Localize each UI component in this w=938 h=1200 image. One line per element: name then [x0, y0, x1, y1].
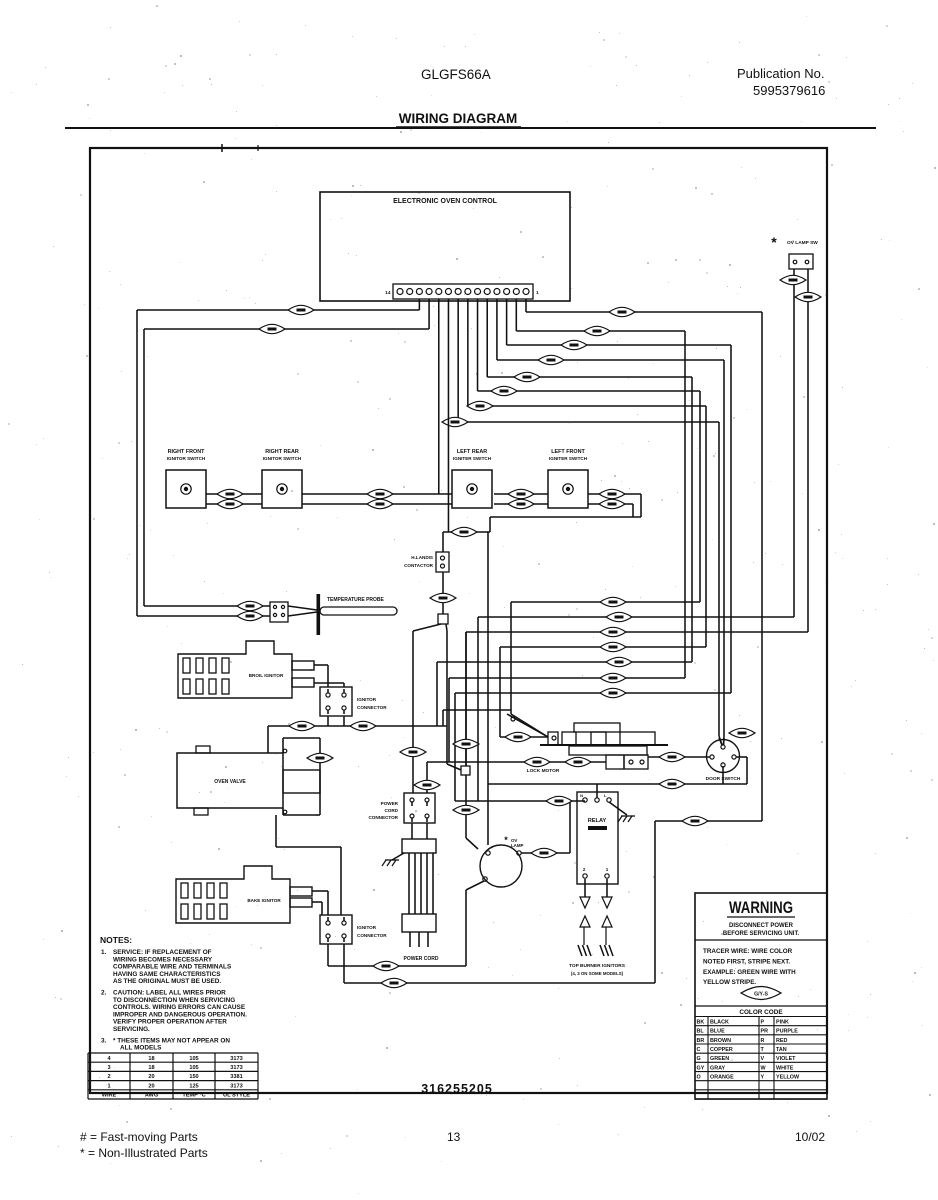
svg-text:BEFORE SERVICING UNIT.: BEFORE SERVICING UNIT.: [723, 931, 800, 937]
svg-text:AS THE ORIGINAL MUST BE USED.: AS THE ORIGINAL MUST BE USED.: [113, 978, 221, 985]
svg-text:COPPER: COPPER: [710, 1047, 733, 1053]
svg-text:POWER: POWER: [381, 801, 399, 806]
svg-text:SERVICE: IF REPLACEMENT OF: SERVICE: IF REPLACEMENT OF: [113, 949, 212, 956]
svg-text:P: P: [761, 1020, 765, 1026]
svg-text:3.: 3.: [101, 1037, 107, 1044]
svg-text:1: 1: [107, 1083, 110, 1089]
svg-text:C: C: [697, 1047, 701, 1053]
svg-text:ORANGE: ORANGE: [710, 1075, 734, 1081]
svg-text:LEFT REAR: LEFT REAR: [457, 449, 487, 455]
svg-text:RED: RED: [776, 1038, 787, 1044]
svg-text:BROIL IGNITOR: BROIL IGNITOR: [249, 673, 284, 678]
svg-text:OVEN VALVE: OVEN VALVE: [214, 779, 246, 785]
svg-text:BAKE IGNITOR: BAKE IGNITOR: [247, 898, 281, 903]
svg-text:R: R: [761, 1038, 765, 1044]
svg-text:20: 20: [148, 1074, 154, 1080]
svg-text:BK: BK: [697, 1020, 705, 1026]
svg-text:1: 1: [536, 290, 539, 296]
svg-text:EXAMPLE: GREEN WIRE WITH: EXAMPLE: GREEN WIRE WITH: [703, 969, 796, 976]
svg-text:3173: 3173: [230, 1056, 242, 1062]
svg-text:WIRE: WIRE: [102, 1093, 117, 1099]
svg-text:IGNITOR SWITCH: IGNITOR SWITCH: [167, 456, 206, 461]
svg-text:VIOLET: VIOLET: [776, 1056, 796, 1062]
svg-text:CAUTION: LABEL ALL WIRES PRI: CAUTION: LABEL ALL WIRES PRIOR: [113, 990, 226, 997]
svg-text:CONNECTOR: CONNECTOR: [357, 705, 387, 710]
svg-text:CONNECTOR: CONNECTOR: [368, 815, 398, 820]
svg-text:WHITE: WHITE: [776, 1065, 794, 1071]
svg-text:125: 125: [189, 1083, 198, 1089]
svg-text:5995379616: 5995379616: [753, 83, 825, 98]
svg-text:GRAY: GRAY: [710, 1065, 725, 1071]
svg-text:IGNITOR: IGNITOR: [357, 697, 377, 702]
svg-text:VERIFY PROPER OPERATION AFTER: VERIFY PROPER OPERATION AFTER: [113, 1019, 227, 1026]
svg-text:10/02: 10/02: [795, 1130, 825, 1144]
svg-text:HAVING SAME CHARACTERISTICS: HAVING SAME CHARACTERISTICS: [113, 971, 221, 978]
svg-text:* = Non-Illustrated Parts: * = Non-Illustrated Parts: [80, 1146, 208, 1160]
svg-text:RIGHT REAR: RIGHT REAR: [265, 449, 299, 455]
svg-text:TAN: TAN: [776, 1047, 787, 1053]
svg-text:ELECTRONIC OVEN CONTROL: ELECTRONIC OVEN CONTROL: [393, 198, 498, 205]
svg-text:3381: 3381: [230, 1074, 242, 1080]
svg-text:COMPARABLE WIRE AND TERMINALS: COMPARABLE WIRE AND TERMINALS: [113, 964, 232, 971]
svg-text:3173: 3173: [230, 1065, 242, 1071]
svg-text:BROWN: BROWN: [710, 1038, 731, 1044]
svg-text:WIRING DIAGRAM: WIRING DIAGRAM: [399, 111, 518, 126]
svg-text:V: V: [761, 1056, 765, 1062]
svg-text:CONTACTOR: CONTACTOR: [404, 563, 434, 568]
svg-text:Publication No.: Publication No.: [737, 66, 824, 81]
svg-text:G/Y-S: G/Y-S: [754, 992, 768, 998]
svg-text:Y: Y: [761, 1075, 765, 1081]
svg-text:13: 13: [447, 1130, 461, 1144]
svg-text:UL STYLE: UL STYLE: [223, 1093, 250, 1099]
svg-text:BL: BL: [697, 1029, 705, 1035]
svg-text:YELLOW STRIPE.: YELLOW STRIPE.: [703, 979, 756, 986]
svg-text:LAMP: LAMP: [511, 843, 524, 848]
svg-text:CONNECTOR: CONNECTOR: [357, 933, 387, 938]
svg-text:2: 2: [583, 867, 586, 872]
svg-text:IGNITOR: IGNITOR: [357, 925, 377, 930]
svg-text:*: *: [504, 835, 508, 845]
svg-text:1.: 1.: [101, 949, 107, 956]
svg-text:IGNITER SWITCH: IGNITER SWITCH: [453, 456, 492, 461]
svg-text:OV LAMP SW: OV LAMP SW: [787, 240, 818, 246]
svg-text:IMPROPER AND DANGEROUS OPERATI: IMPROPER AND DANGEROUS OPERATION.: [113, 1011, 247, 1018]
svg-text:*: *: [771, 234, 777, 250]
svg-text:TEMP °C: TEMP °C: [182, 1093, 205, 1099]
svg-text:2: 2: [107, 1074, 110, 1080]
svg-text:IGNITOR SWITCH: IGNITOR SWITCH: [263, 456, 302, 461]
svg-text:PR: PR: [761, 1029, 769, 1035]
svg-text:YELLOW: YELLOW: [776, 1075, 800, 1081]
svg-text:SERVICING.: SERVICING.: [113, 1026, 150, 1033]
svg-text:PURPLE: PURPLE: [776, 1029, 798, 1035]
svg-text:CONTROLS. WIRING ERRORS CAN C: CONTROLS. WIRING ERRORS CAN CAUSE: [113, 1004, 246, 1011]
svg-text:20: 20: [148, 1083, 154, 1089]
svg-text:IGNITER SWITCH: IGNITER SWITCH: [549, 456, 588, 461]
svg-text:18: 18: [148, 1065, 154, 1071]
svg-text:TOP BURNER IGNITORS: TOP BURNER IGNITORS: [569, 963, 626, 969]
svg-text:GREEN: GREEN: [710, 1056, 729, 1062]
svg-text:RIGHT FRONT: RIGHT FRONT: [168, 449, 206, 455]
svg-text:RELAY: RELAY: [588, 818, 607, 824]
svg-text:316255205: 316255205: [421, 1082, 493, 1096]
svg-text:WARNING: WARNING: [729, 898, 793, 917]
svg-text:* THESE ITEMS MAY NOT APPEAR O: * THESE ITEMS MAY NOT APPEAR ON: [113, 1037, 230, 1044]
svg-text:(4, 3 ON SOME MODELS): (4, 3 ON SOME MODELS): [571, 971, 624, 976]
svg-text:DISCONNECT POWER: DISCONNECT POWER: [729, 923, 794, 929]
svg-text:BR: BR: [697, 1038, 705, 1044]
svg-text:GLGFS66A: GLGFS66A: [421, 67, 491, 82]
svg-text:O: O: [697, 1075, 701, 1081]
svg-text:18: 18: [148, 1056, 154, 1062]
svg-text:GY: GY: [697, 1065, 705, 1071]
svg-text:BLUE: BLUE: [710, 1029, 725, 1035]
svg-text:H.LANDIS: H.LANDIS: [411, 555, 433, 560]
svg-text:BLACK: BLACK: [710, 1020, 729, 1026]
svg-text:# = Fast-moving Parts: # = Fast-moving Parts: [80, 1130, 198, 1144]
svg-text:3173: 3173: [230, 1083, 242, 1089]
svg-text:TEMPERATURE PROBE: TEMPERATURE PROBE: [327, 597, 385, 603]
svg-text:LOCK MOTOR: LOCK MOTOR: [527, 768, 560, 774]
svg-text:TO DISCONNECTION WHEN SERVICIN: TO DISCONNECTION WHEN SERVICING: [113, 997, 235, 1004]
svg-text:LEFT FRONT: LEFT FRONT: [551, 449, 585, 455]
svg-text:2.: 2.: [101, 990, 107, 997]
svg-text:PINK: PINK: [776, 1020, 789, 1026]
svg-text:150: 150: [189, 1074, 198, 1080]
svg-text:14: 14: [385, 290, 391, 296]
svg-text:N: N: [580, 793, 583, 798]
svg-text:ALL MODELS: ALL MODELS: [120, 1045, 162, 1052]
svg-text:3: 3: [107, 1065, 110, 1071]
svg-text:G: G: [697, 1056, 701, 1062]
svg-text:105: 105: [189, 1065, 198, 1071]
svg-text:NOTED FIRST, STRIPE NEXT.: NOTED FIRST, STRIPE NEXT.: [703, 958, 790, 965]
svg-text:1: 1: [606, 867, 609, 872]
svg-text:105: 105: [189, 1056, 198, 1062]
svg-text:COLOR CODE: COLOR CODE: [739, 1009, 783, 1016]
svg-text:NOTES:: NOTES:: [100, 935, 132, 945]
svg-text:CORD: CORD: [384, 808, 398, 813]
svg-text:WIRING BECOMES NECESSARY: WIRING BECOMES NECESSARY: [113, 956, 213, 963]
svg-text:TRACER WIRE: WIRE COLOR: TRACER WIRE: WIRE COLOR: [703, 948, 793, 955]
svg-text:AWG: AWG: [145, 1093, 158, 1099]
svg-text:POWER CORD: POWER CORD: [404, 956, 439, 962]
